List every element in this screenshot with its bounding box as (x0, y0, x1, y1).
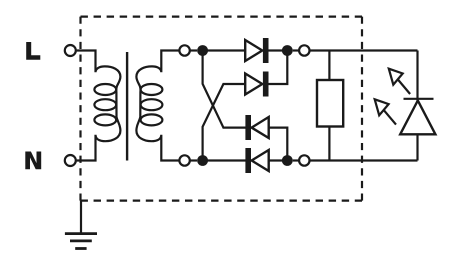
LED D5 (400, 51, 435, 161)
wire node B to D4 (203, 159, 246, 161)
diode D3 (245, 115, 268, 140)
transformer primary winding (77, 51, 121, 161)
enclosure dashed box top edge (81, 16, 363, 18)
node D (junction dot bottom right) (282, 155, 293, 166)
terminal secondary bottom (179, 155, 189, 165)
wire bottom rail to LED (310, 159, 418, 161)
LED arrow 1 (389, 69, 410, 94)
enclosure dashed box left edge (79, 17, 81, 201)
wire secondary bottom to node (190, 159, 197, 161)
diode D1 (245, 38, 268, 63)
wire crossover A: top node to D3 (203, 51, 246, 128)
enclosure dashed box right edge (361, 17, 363, 201)
transformer secondary winding (136, 51, 180, 161)
terminal secondary top (179, 45, 189, 55)
wire top rail to LED (310, 49, 418, 51)
resistor R1 (317, 51, 343, 161)
terminal L (65, 45, 76, 56)
wire node D to output terminal (293, 159, 299, 161)
enclosure dashed box bottom edge (81, 200, 363, 202)
terminal output minus (299, 155, 309, 165)
terminal N (65, 155, 76, 166)
LED arrow 2 (375, 99, 396, 124)
ground (65, 201, 97, 249)
diode D4 (245, 148, 268, 173)
node B (junction dot bottom) (197, 155, 208, 166)
wire D3 down to node D (269, 128, 288, 161)
wire D1 to node C (269, 49, 288, 51)
label L (26, 42, 40, 60)
label N (25, 152, 41, 170)
node A (junction dot top) (197, 45, 208, 56)
wire secondary top to node (190, 49, 197, 51)
diode D2 (245, 72, 268, 97)
wire crossover B: bottom node to D2 (203, 84, 246, 161)
wire D4 to node D (269, 159, 288, 161)
node C (junction dot top right) (282, 45, 293, 56)
wire node A to D1 (203, 49, 246, 51)
wire node C to output terminal (293, 49, 299, 51)
transformer core (126, 52, 128, 161)
terminal output plus (299, 45, 309, 55)
wire D2 up to node C (269, 51, 288, 85)
